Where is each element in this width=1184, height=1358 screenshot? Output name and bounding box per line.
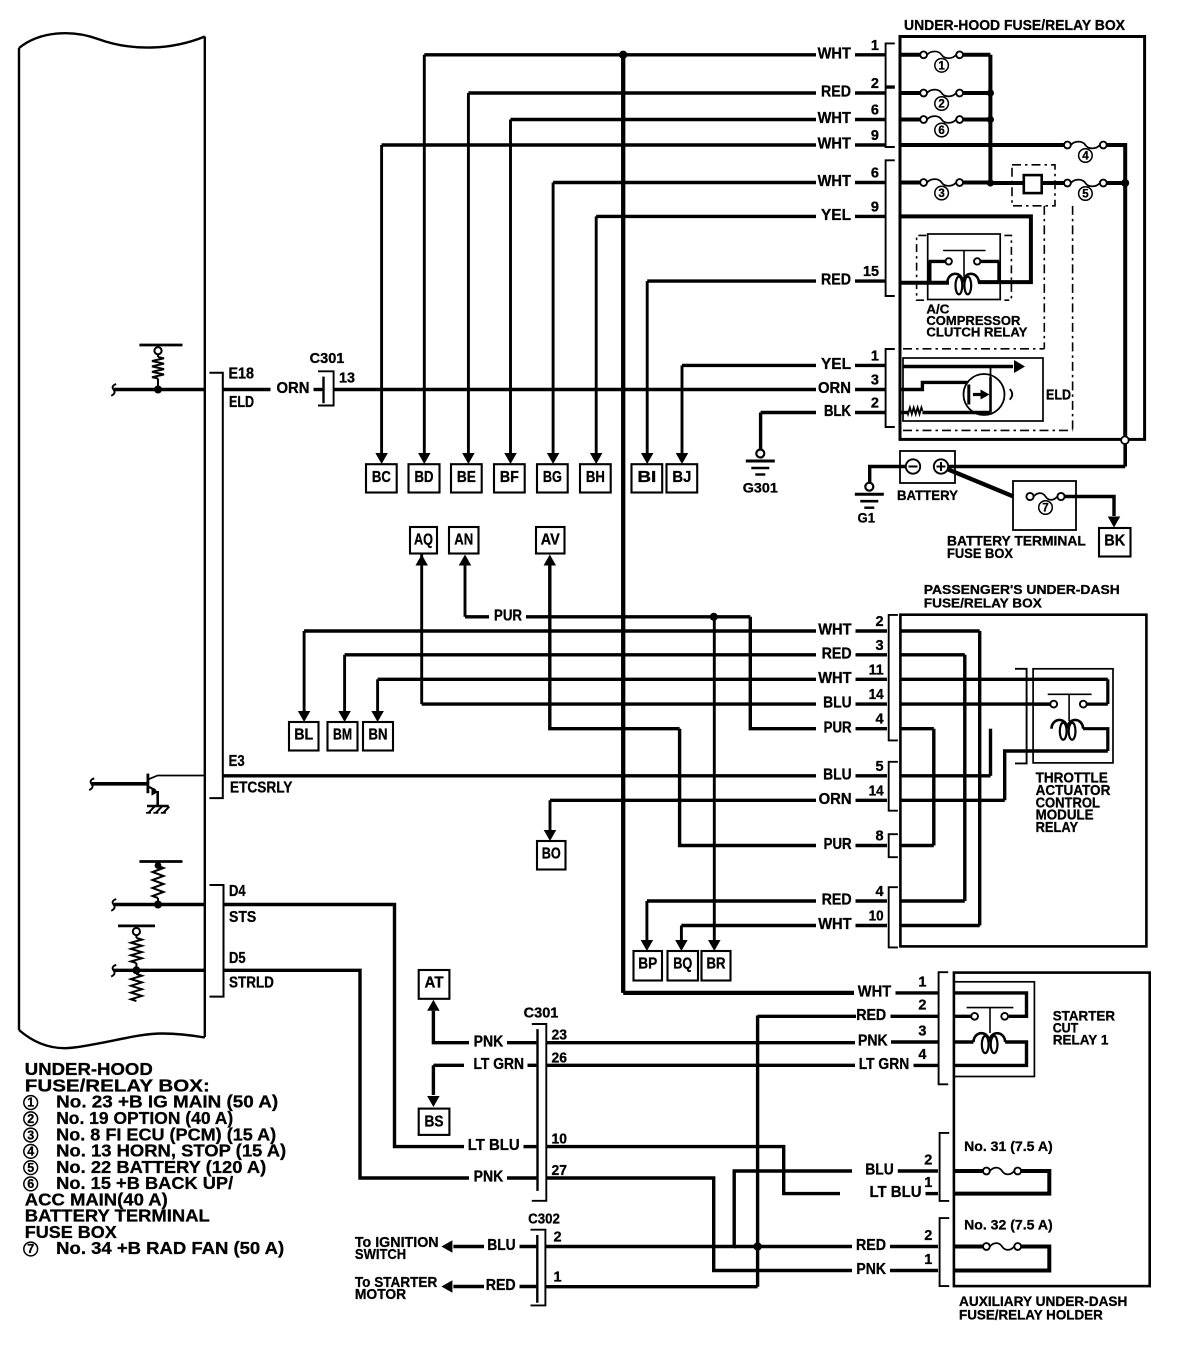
svg-text:WHT: WHT [818,173,852,190]
svg-text:2: 2 [924,1152,932,1168]
svg-text:ORN: ORN [818,380,851,397]
svg-text:6: 6 [871,103,879,119]
svg-text:E18: E18 [229,366,255,383]
svg-text:STRLD: STRLD [229,975,274,992]
svg-text:BLU: BLU [865,1162,894,1179]
svg-text:9: 9 [871,128,879,144]
svg-text:BC: BC [372,469,391,486]
svg-text:AQ: AQ [414,532,433,549]
svg-text:5: 5 [876,759,884,775]
svg-text:BK: BK [1104,533,1125,550]
svg-text:BN: BN [369,727,388,744]
svg-text:1: 1 [924,1175,932,1191]
svg-text:MOTOR: MOTOR [355,1286,406,1303]
svg-text:PNK: PNK [474,1033,504,1050]
svg-text:9: 9 [871,199,879,215]
svg-text:PUR: PUR [824,836,852,853]
svg-text:11: 11 [869,662,884,678]
svg-text:3: 3 [27,1128,34,1142]
svg-text:14: 14 [869,783,884,799]
svg-text:ELD: ELD [229,394,254,411]
svg-text:SWITCH: SWITCH [355,1246,406,1263]
svg-text:No. 32 (7.5 A): No. 32 (7.5 A) [964,1216,1053,1232]
svg-text:FUSE/RELAY HOLDER: FUSE/RELAY HOLDER [959,1308,1103,1323]
svg-text:8: 8 [876,829,884,845]
svg-text:5: 5 [1082,189,1089,201]
svg-text:4: 4 [27,1145,34,1159]
svg-text:WHT: WHT [818,670,852,687]
svg-text:BL: BL [294,727,313,744]
svg-text:2: 2 [871,396,879,412]
svg-text:WHT: WHT [818,45,852,62]
svg-text:LT GRN: LT GRN [474,1056,525,1073]
svg-text:BI: BI [637,469,656,486]
svg-text:D4: D4 [229,883,246,900]
svg-text:3: 3 [938,188,944,200]
svg-text:G301: G301 [743,480,778,496]
svg-text:YEL: YEL [821,356,851,373]
svg-text:1: 1 [871,348,879,364]
svg-text:C302: C302 [528,1211,560,1228]
svg-text:LT BLU: LT BLU [870,1184,922,1201]
svg-text:C301: C301 [310,350,345,367]
svg-text:14: 14 [869,687,884,703]
svg-text:4: 4 [876,712,884,728]
svg-text:CLUTCH RELAY: CLUTCH RELAY [926,325,1027,340]
svg-text:3: 3 [918,1023,926,1039]
svg-text:6: 6 [871,166,879,182]
svg-text:PUR: PUR [494,607,522,624]
svg-text:BR: BR [707,956,726,973]
svg-text:2: 2 [27,1112,34,1126]
svg-text:BG: BG [543,469,562,486]
svg-text:BATTERY: BATTERY [897,487,959,503]
svg-text:No. 34 +B RAD FAN (50 A): No. 34 +B RAD FAN (50 A) [56,1238,284,1258]
svg-text:PNK: PNK [856,1261,886,1278]
svg-text:ORN: ORN [819,791,852,808]
svg-text:BLK: BLK [824,403,851,420]
svg-text:13: 13 [339,370,355,386]
svg-text:1: 1 [27,1096,34,1110]
svg-text:YEL: YEL [821,207,851,224]
svg-text:FUSE/RELAY BOX: FUSE/RELAY BOX [924,596,1042,611]
svg-text:WHT: WHT [818,916,852,933]
svg-text:ELD: ELD [1046,387,1071,404]
svg-text:LT BLU: LT BLU [468,1137,520,1154]
svg-text:1: 1 [924,1252,932,1268]
svg-text:1: 1 [938,61,945,73]
svg-text:ORN: ORN [277,380,310,397]
svg-text:3: 3 [876,638,884,654]
svg-text:BM: BM [333,727,352,744]
svg-text:UNDER-HOOD FUSE/RELAY BOX: UNDER-HOOD FUSE/RELAY BOX [904,18,1125,34]
svg-text:BD: BD [415,469,434,486]
svg-text:BH: BH [586,469,605,486]
svg-text:BQ: BQ [673,956,692,973]
svg-text:RED: RED [822,892,852,909]
svg-text:LT GRN: LT GRN [859,1056,910,1073]
svg-text:WHT: WHT [818,136,852,153]
svg-text:BJ: BJ [672,469,691,486]
svg-text:BLU: BLU [823,766,852,783]
svg-text:C301: C301 [524,1005,559,1022]
svg-text:RED: RED [822,645,852,662]
svg-text:PNK: PNK [474,1169,504,1186]
svg-text:ETCSRLY: ETCSRLY [230,780,293,797]
svg-text:7: 7 [1042,503,1048,515]
svg-text:AV: AV [541,532,561,549]
svg-text:D5: D5 [229,950,246,967]
svg-text:RED: RED [821,84,851,101]
svg-text:2: 2 [871,76,879,92]
svg-text:BO: BO [542,846,561,863]
svg-text:6: 6 [938,125,944,137]
svg-text:RED: RED [856,1237,886,1254]
svg-text:STS: STS [229,909,256,926]
svg-text:PUR: PUR [824,719,852,736]
svg-text:3: 3 [871,373,879,389]
svg-text:2: 2 [918,998,926,1014]
svg-text:BF: BF [500,469,519,486]
svg-text:WHT: WHT [818,110,852,127]
svg-text:RED: RED [486,1277,516,1294]
svg-text:WHT: WHT [858,984,892,1001]
svg-text:2: 2 [876,614,884,630]
svg-text:2: 2 [924,1228,932,1244]
svg-text:G1: G1 [858,510,876,526]
svg-text:4: 4 [1082,151,1089,163]
svg-text:2: 2 [554,1230,562,1246]
svg-text:7: 7 [27,1242,34,1256]
svg-text:PNK: PNK [858,1033,888,1050]
svg-text:RELAY 1: RELAY 1 [1053,1032,1109,1048]
svg-text:BP: BP [638,956,657,973]
svg-text:BLU: BLU [823,695,852,712]
svg-text:1: 1 [918,974,926,990]
svg-text:10: 10 [869,909,884,925]
svg-text:BS: BS [425,1113,444,1130]
svg-text:AN: AN [454,532,473,549]
svg-text:1: 1 [871,38,879,54]
svg-text:5: 5 [27,1161,34,1175]
svg-text:2: 2 [938,99,944,111]
svg-text:BE: BE [457,469,476,486]
svg-text:RELAY: RELAY [1036,820,1079,836]
svg-text:RED: RED [821,272,851,289]
svg-text:WHT: WHT [818,622,852,639]
svg-text:15: 15 [863,264,879,280]
svg-text:4: 4 [876,884,884,900]
svg-text:FUSE BOX: FUSE BOX [947,546,1013,561]
svg-text:No. 31 (7.5 A): No. 31 (7.5 A) [964,1138,1053,1154]
svg-text:RED: RED [856,1007,886,1024]
svg-text:AT: AT [425,975,445,992]
svg-text:1: 1 [554,1270,562,1286]
svg-text:BLU: BLU [487,1237,516,1254]
svg-text:E3: E3 [229,753,245,770]
svg-text:4: 4 [918,1047,926,1063]
